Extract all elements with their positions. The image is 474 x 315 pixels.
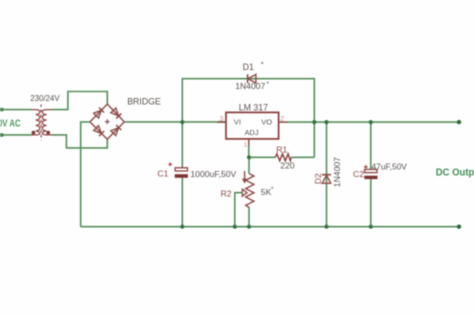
junction dot wiper/rail xyxy=(233,225,237,229)
wire: wiper to rail xyxy=(235,193,243,227)
transformer core dashed line xyxy=(40,104,42,140)
capacitor C2 xyxy=(365,169,377,172)
junction dot R2/rail xyxy=(247,225,251,229)
wire: AC input top lead xyxy=(2,109,32,111)
junction dot VO/D1/R1 xyxy=(312,120,316,124)
svg-text:230V AC: 230V AC xyxy=(0,117,21,128)
diode D1 xyxy=(247,74,249,83)
svg-text:R2: R2 xyxy=(221,188,232,198)
svg-text:D1: D1 xyxy=(243,62,254,72)
svg-text:220: 220 xyxy=(280,160,295,170)
bridge rectifier diamond xyxy=(90,104,124,139)
wire: pot bottom to rail xyxy=(248,208,250,227)
svg-text:1000uF,50V: 1000uF,50V xyxy=(190,169,236,179)
svg-text:ADJ: ADJ xyxy=(245,128,259,137)
capacitor C1 wires xyxy=(181,122,183,227)
svg-text:C2: C2 xyxy=(353,169,364,179)
artifact mark near 5K xyxy=(271,187,273,189)
svg-text:D2: D2 xyxy=(313,173,323,184)
svg-text:C1: C1 xyxy=(157,169,168,179)
junction dot ADJ/R1/R2 xyxy=(247,155,251,159)
C1 plus sign xyxy=(168,162,172,166)
svg-text:3: 3 xyxy=(220,116,224,123)
svg-text:230/24V: 230/24V xyxy=(30,94,60,103)
terminal pad top-left xyxy=(0,108,4,111)
op-amp regulator U1 LM317 box xyxy=(226,112,279,138)
artifact mark near D1 xyxy=(261,62,263,64)
transformer TR1 primary winding xyxy=(32,110,40,135)
svg-text:VO: VO xyxy=(261,118,272,127)
junction dot VO/D2 xyxy=(324,120,328,124)
svg-text:VI: VI xyxy=(234,118,241,127)
potentiometer R2 zigzag xyxy=(246,174,254,208)
terminal pad bottom-left xyxy=(0,133,4,136)
transformer TR1 secondary winding xyxy=(42,110,52,135)
artifact mark near 1N4007 xyxy=(267,82,269,84)
svg-text:BRIDGE: BRIDGE xyxy=(127,97,161,107)
capacitor C1 xyxy=(175,168,187,171)
svg-text:1: 1 xyxy=(244,141,248,148)
junction dot C2/rail xyxy=(369,225,373,229)
wire: VO output rail xyxy=(288,121,459,123)
pin stub VO xyxy=(279,121,288,123)
wire: ground rail xyxy=(81,226,459,228)
wire: D1 bypass loop xyxy=(182,79,314,158)
svg-text:2: 2 xyxy=(280,116,284,123)
bridge diode top-right xyxy=(111,108,122,119)
wire: secondary bottom to bridge bottom xyxy=(52,135,107,148)
junction dot D2/rail xyxy=(324,225,328,229)
wire: AC input bottom lead xyxy=(2,134,32,136)
wire: ADJ to R1 junction xyxy=(248,146,250,158)
pin stub ADJ xyxy=(248,139,250,146)
svg-text:47uF,50V: 47uF,50V xyxy=(372,161,408,171)
bridge diode bottom-right xyxy=(111,125,122,136)
svg-text:DC Output: DC Output xyxy=(436,167,474,178)
svg-text:LM 317: LM 317 xyxy=(239,103,268,113)
svg-text:1N4007: 1N4007 xyxy=(235,81,265,91)
potentiometer wiper xyxy=(242,189,247,196)
junction dot C1/rail xyxy=(180,225,184,229)
potentiometer adjust arrow xyxy=(244,171,246,179)
junction dot VI/C1/D1 xyxy=(180,120,184,124)
wire: bridge minus to ground rail xyxy=(81,122,90,227)
diode D2 wires xyxy=(326,122,328,227)
pin stub VI xyxy=(217,121,226,123)
transformer secondary polarity dot xyxy=(46,131,50,135)
svg-text:R1: R1 xyxy=(276,145,287,155)
wire: bridge plus to LM317 VI xyxy=(124,121,226,123)
junction dot VO/C2 xyxy=(369,120,373,124)
bridge diode bottom-left xyxy=(94,126,105,137)
resistor R1 xyxy=(275,154,291,161)
capacitor C2 wires xyxy=(370,122,372,227)
transformer primary polarity dot xyxy=(32,131,36,135)
diode D2 xyxy=(322,174,331,176)
wire: R1 left lead xyxy=(249,156,275,158)
bridge diode top-left xyxy=(94,107,105,118)
C2 plus sign xyxy=(364,165,368,169)
endpoint dot DC- xyxy=(457,225,461,229)
wire: junction to potentiometer xyxy=(248,157,250,174)
svg-text:1N4007: 1N4007 xyxy=(332,157,342,187)
bridge plus mark xyxy=(105,119,110,124)
endpoint dot DC+ xyxy=(457,120,461,124)
wire: secondary top to bridge top xyxy=(52,92,107,110)
svg-text:5K: 5K xyxy=(261,187,272,197)
wire: R1 right lead xyxy=(291,156,314,158)
